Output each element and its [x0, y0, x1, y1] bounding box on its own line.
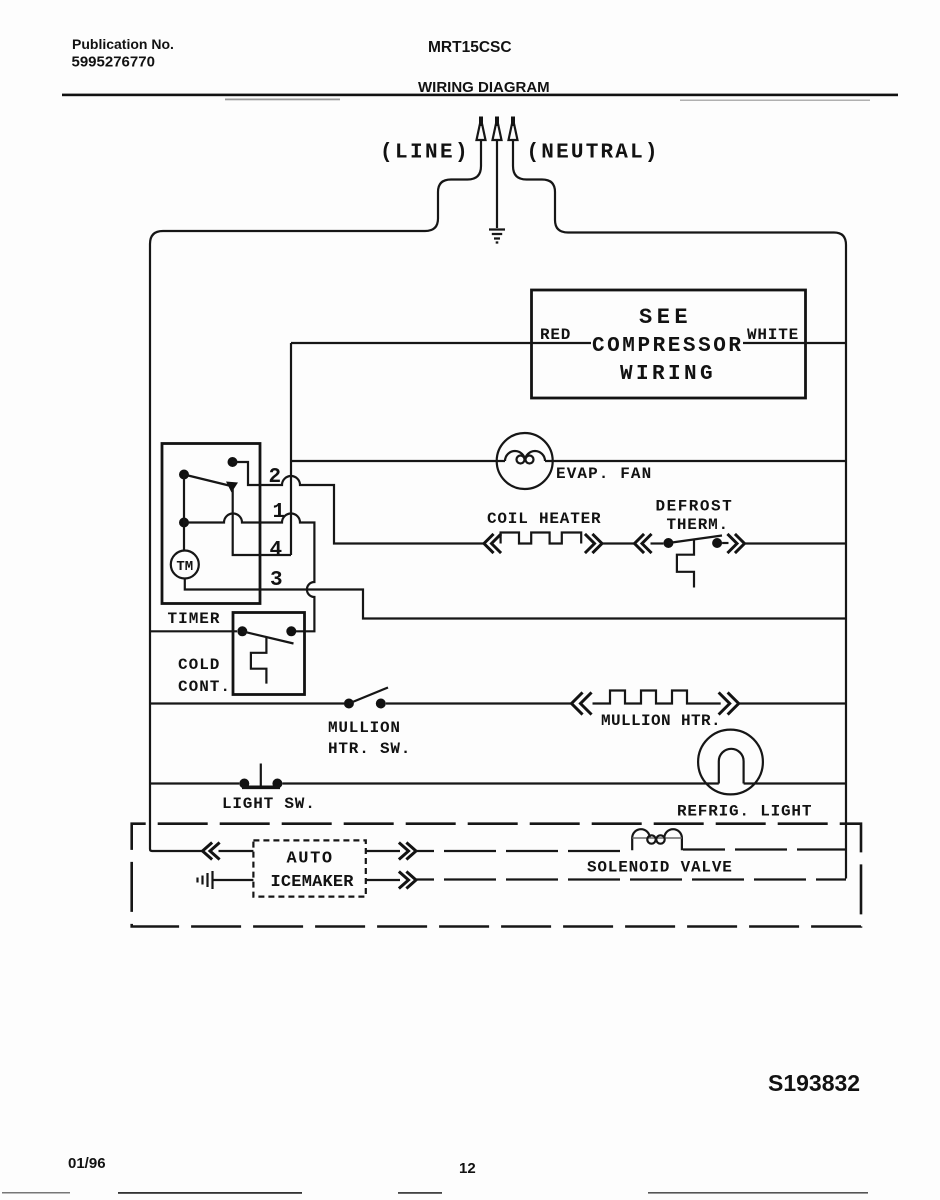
- svg-text:WIRING DIAGRAM: WIRING DIAGRAM: [418, 79, 550, 96]
- svg-text:Publication No.: Publication No.: [72, 36, 174, 52]
- svg-text:REFRIG. LIGHT: REFRIG. LIGHT: [677, 803, 812, 821]
- svg-text:HTR. SW.: HTR. SW.: [328, 740, 411, 758]
- svg-text:MRT15CSC: MRT15CSC: [428, 39, 512, 56]
- svg-text:RED: RED: [540, 326, 571, 344]
- svg-text:12: 12: [459, 1160, 476, 1177]
- svg-text:WHITE: WHITE: [747, 326, 799, 344]
- svg-text:TM: TM: [176, 559, 193, 575]
- svg-text:3: 3: [270, 569, 283, 592]
- svg-text:SOLENOID VALVE: SOLENOID VALVE: [587, 859, 733, 877]
- svg-text:2: 2: [269, 466, 282, 489]
- svg-text:SEE: SEE: [639, 305, 692, 330]
- svg-text:ICEMAKER: ICEMAKER: [271, 873, 355, 892]
- svg-text:01/96: 01/96: [68, 1155, 106, 1172]
- svg-text:THERM.: THERM.: [667, 516, 729, 534]
- svg-text:COLD: COLD: [178, 656, 220, 674]
- svg-text:AUTO: AUTO: [287, 850, 334, 869]
- svg-text:S193832: S193832: [768, 1070, 860, 1096]
- svg-text:TIMER: TIMER: [168, 610, 221, 628]
- svg-text:WIRING: WIRING: [620, 363, 716, 386]
- svg-text:LIGHT SW.: LIGHT SW.: [222, 795, 316, 813]
- svg-text:MULLION HTR.: MULLION HTR.: [601, 712, 721, 730]
- svg-text:COIL HEATER: COIL HEATER: [487, 510, 601, 528]
- svg-text:DEFROST: DEFROST: [656, 498, 734, 516]
- svg-text:CONT.: CONT.: [178, 678, 231, 696]
- svg-text:(NEUTRAL): (NEUTRAL): [527, 142, 660, 165]
- svg-text:EVAP. FAN: EVAP. FAN: [556, 465, 652, 483]
- svg-text:4: 4: [270, 539, 283, 562]
- svg-text:5995276770: 5995276770: [72, 54, 155, 71]
- svg-text:1: 1: [273, 501, 286, 524]
- svg-text:COMPRESSOR: COMPRESSOR: [592, 335, 744, 358]
- svg-text:(LINE): (LINE): [380, 142, 470, 165]
- svg-text:MULLION: MULLION: [328, 719, 401, 737]
